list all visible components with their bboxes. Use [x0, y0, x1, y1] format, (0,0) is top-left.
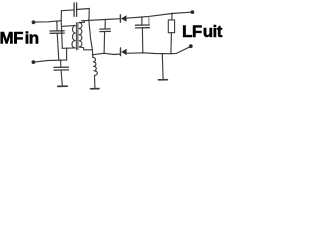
resistor R1 lead bottom — [170, 33, 173, 54]
capacitor C1 coupling (top rail) — [74, 3, 77, 17]
terminal top input — [32, 20, 36, 24]
wire riser bottom input — [66, 48, 68, 60]
capacitor C3 lead bottom — [61, 70, 62, 86]
wire center tap stub — [92, 55, 94, 58]
wire output top to terminal — [172, 12, 192, 13]
junction node C4 rail — [103, 52, 105, 54]
wire input bottom — [35, 60, 66, 62]
capacitor C5 lead bottom — [141, 28, 143, 53]
wire bottom rail right of diode — [127, 52, 171, 55]
junction node input top — [56, 21, 58, 23]
junction node bottom input — [60, 59, 62, 61]
junction node resistor top — [171, 13, 173, 15]
ground left — [58, 85, 67, 87]
ground right — [158, 79, 167, 81]
wire rail drop to center tap — [89, 9, 93, 55]
wire ground branch right — [161, 54, 164, 79]
transformer T1 primary winding — [72, 26, 75, 48]
svg-text:in: in — [25, 28, 39, 47]
capacitor C3 decoupling plates — [54, 67, 69, 70]
junction node C5 rail — [142, 52, 144, 54]
wire input top — [35, 21, 61, 22]
diode D2 — [121, 48, 127, 56]
inductor L3 lead bottom — [94, 75, 96, 88]
terminal output bottom — [189, 44, 193, 48]
ground center — [91, 88, 99, 90]
inductor L3 tertiary coil — [93, 57, 98, 75]
junction node ground branch — [161, 53, 163, 55]
wire output bottom to terminal — [171, 46, 191, 53]
capacitor C4 lead top — [104, 20, 106, 29]
resistor R1 — [168, 20, 174, 33]
capacitor C4 lead bottom — [103, 32, 106, 54]
capacitor C5 lead right — [148, 16, 150, 25]
wire primary bottom lead — [62, 47, 75, 49]
wire primary top lead — [62, 25, 75, 28]
wire top path right of diode — [127, 14, 173, 19]
wire secondary top lead — [79, 21, 84, 23]
wire vertical primary branch — [61, 21, 62, 49]
wire riser to top rail — [60, 11, 62, 21]
capacitor C5 lead top — [141, 17, 143, 25]
wire top rail left — [61, 9, 74, 12]
capacitor C5 plates — [135, 25, 149, 28]
terminal output top — [191, 10, 195, 14]
terminal bottom input — [32, 60, 36, 64]
capacitor C2 tank plates — [50, 31, 64, 34]
capacitor C2 tank lead bottom — [57, 33, 59, 60]
wire bottom rail left of diode — [93, 53, 121, 54]
svg-text:uit: uit — [203, 22, 223, 41]
resistor R1 lead top — [171, 14, 173, 20]
svg-text:LF: LF — [182, 22, 202, 41]
svg-text:MF: MF — [0, 28, 23, 47]
diode D1 — [120, 15, 126, 22]
junction node secondary top — [88, 19, 90, 21]
junction node rail center tap — [92, 54, 94, 56]
wire top path left of diode — [82, 19, 121, 21]
wire top rail right — [77, 9, 90, 10]
transformer T1 core — [76, 23, 78, 50]
capacitor C2 tank lead top — [56, 22, 58, 31]
wire secondary bottom lead — [79, 47, 92, 50]
capacitor C4 plates — [100, 29, 111, 32]
capacitor C3 decoupling lead top — [60, 60, 62, 67]
transformer T1 secondary winding — [79, 23, 82, 47]
